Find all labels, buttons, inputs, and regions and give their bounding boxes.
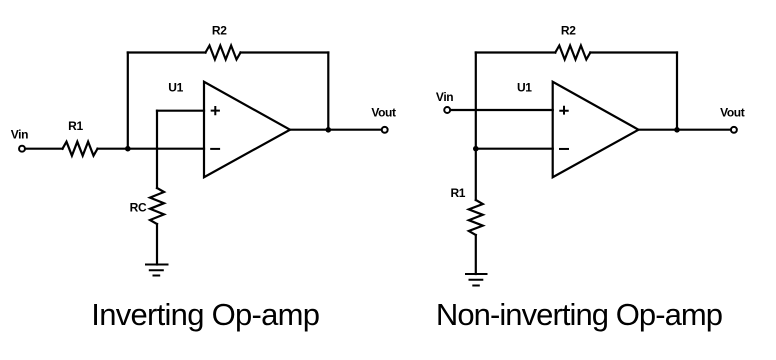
terminal Vin (left input port) xyxy=(19,146,25,152)
wire feedback/R1 vertical xyxy=(475,53,477,201)
svg-text:R2: R2 xyxy=(212,24,227,38)
svg-text:U1: U1 xyxy=(168,80,183,94)
junction node A (R1 / feedback) xyxy=(125,146,131,152)
wire node B to inverting input xyxy=(476,148,553,150)
wire feedback down to output xyxy=(327,53,329,131)
pin marker + (right, non-inverting input) xyxy=(560,107,567,114)
svg-text:R1: R1 xyxy=(450,186,465,200)
terminal Vout (right circuit) xyxy=(731,127,737,133)
resistor R1 (right) xyxy=(469,200,483,235)
wire non-inverting input stub xyxy=(157,110,204,112)
wire down to RC (crosses inverting wire, no connection) xyxy=(156,111,158,188)
ground (left) xyxy=(146,265,168,276)
svg-text:Vout: Vout xyxy=(720,106,745,120)
svg-text:U1: U1 xyxy=(517,81,532,95)
wire op-amp output xyxy=(290,129,381,131)
pin marker + (non-inverting input) xyxy=(212,107,219,114)
wire feedback right segment (right circuit) xyxy=(590,51,677,53)
wire feedback left segment (right circuit) xyxy=(476,51,556,53)
resistor RC xyxy=(150,188,164,224)
op-amp U1 (right) xyxy=(553,82,639,177)
svg-text:Vout: Vout xyxy=(371,106,396,120)
resistor R2 xyxy=(206,46,241,60)
terminal Vin (right input port) xyxy=(444,107,450,113)
pin marker - (right, inverting input) xyxy=(560,148,568,150)
wire feedback down to output (right circuit) xyxy=(676,53,678,131)
svg-text:Inverting Op-amp: Inverting Op-amp xyxy=(91,297,319,332)
svg-text:Vin: Vin xyxy=(436,90,453,104)
pin marker - (inverting input) xyxy=(211,148,219,150)
wire op-amp output (right) xyxy=(639,129,731,131)
svg-text:Vin: Vin xyxy=(11,128,28,142)
wire R1 to ground (right) xyxy=(475,235,477,274)
op-amp U1 xyxy=(204,82,290,177)
svg-text:RC: RC xyxy=(130,201,147,215)
wire Vin to non-inverting input (crosses feedback drop, no connection) xyxy=(451,109,553,111)
ground (right) xyxy=(466,274,487,286)
svg-text:Non-inverting Op-amp: Non-inverting Op-amp xyxy=(436,297,722,332)
wire RC to ground xyxy=(156,224,158,265)
wire feedback right segment xyxy=(241,51,329,53)
wire node A up to feedback xyxy=(127,53,129,149)
svg-text:R1: R1 xyxy=(68,119,83,133)
junction output node xyxy=(326,127,332,133)
wire Vin to R1 xyxy=(26,148,63,150)
resistor R1 xyxy=(63,142,98,156)
svg-text:R2: R2 xyxy=(561,24,576,38)
wire feedback left segment xyxy=(128,51,206,53)
resistor R2 (right) xyxy=(555,46,590,60)
junction node B (inverting input / R1 / feedback) xyxy=(473,146,479,152)
wire R1 to inverting input (node A) xyxy=(98,148,205,150)
junction output node (right circuit) xyxy=(674,127,680,133)
terminal Vout (left circuit) xyxy=(382,127,388,133)
